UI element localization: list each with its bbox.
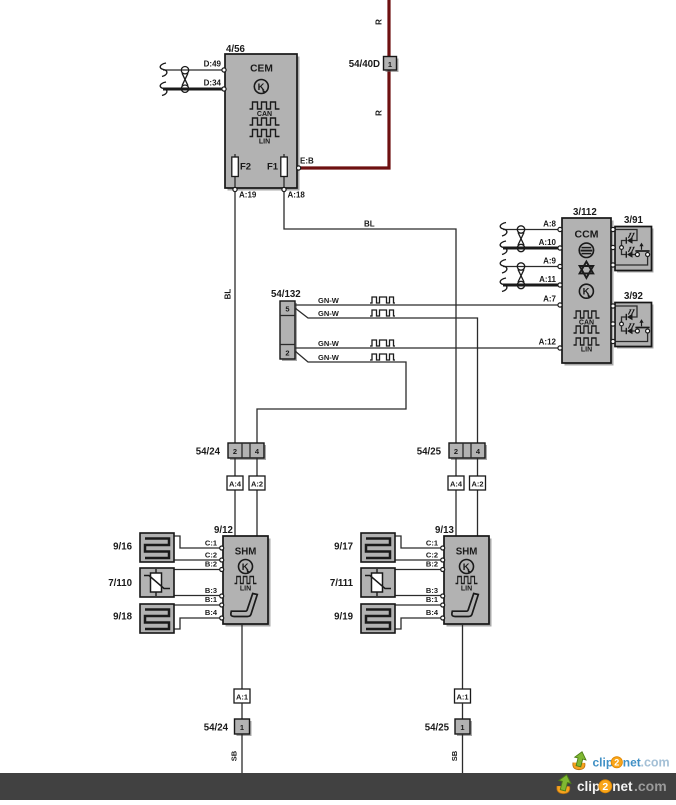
control module CEM 4/56 (228, 57, 300, 191)
svg-text:A:10: A:10 (539, 238, 557, 247)
svg-text:9/12: 9/12 (214, 525, 233, 536)
wire A:8 twisted pair upper (CCM) (503, 229, 558, 231)
svg-text:A:2: A:2 (251, 480, 263, 489)
svg-text:LIN: LIN (259, 139, 270, 146)
svg-text:2: 2 (602, 781, 608, 793)
svg-text:9/16: 9/16 (113, 542, 132, 553)
svg-text:A:19: A:19 (239, 191, 257, 200)
splice 54/25 pin 1 (457, 721, 472, 736)
connector 54/24 (230, 445, 266, 460)
temperature sensor 7/110 (140, 568, 174, 597)
icon CAN waveform CEM (250, 102, 280, 109)
svg-text:SB: SB (450, 750, 459, 761)
icon CAN waveform CCM (574, 311, 600, 318)
svg-text:A:4: A:4 (229, 480, 242, 489)
pin A:7 (558, 303, 562, 307)
twisted-pair symbol at CEM (181, 67, 188, 93)
icon LIN waveform CEM (250, 130, 280, 137)
svg-text:54/24: 54/24 (196, 447, 221, 458)
connector 54/25 (451, 445, 487, 460)
svg-text:9/19: 9/19 (334, 612, 353, 623)
svg-text:.com: .com (634, 778, 667, 794)
icon climate fan circle CCM (579, 243, 593, 257)
heater element 9/18 (140, 604, 174, 633)
connector 54/132 (282, 303, 297, 361)
seat heater module SHM 9/12 (220, 536, 271, 627)
fuse F2 (234, 154, 236, 188)
svg-text:LIN: LIN (581, 347, 592, 354)
svg-text:4/56: 4/56 (226, 44, 245, 55)
pin A:19 (233, 187, 237, 191)
LED and switch circuit 3/92 (615, 306, 650, 342)
svg-text:E:B: E:B (300, 157, 314, 166)
wire 54/25 pin2 to SHM A:4 (455, 458, 457, 476)
fuse F1 (283, 154, 285, 188)
svg-text:.com: .com (641, 756, 670, 770)
svg-text:A:1: A:1 (456, 693, 468, 702)
temperature sensor 7/111 (361, 568, 395, 597)
wire GN-W pin5 to CCM A:7 (295, 304, 558, 306)
wires 9/13 to heater elements and sensor (395, 536, 441, 629)
icon snowflake star CCM (580, 262, 594, 274)
heater element 9/16 (140, 533, 174, 562)
pin box A:2 left (249, 476, 265, 490)
twisted-pair symbol CCM lower (517, 263, 524, 289)
pin D:49 (222, 68, 226, 72)
svg-text:9/13: 9/13 (435, 525, 454, 536)
pin A:18 (282, 187, 286, 191)
svg-text:CAN: CAN (257, 111, 272, 118)
svg-text:2: 2 (285, 349, 289, 358)
svg-text:A:4: A:4 (450, 480, 463, 489)
svg-text:net: net (623, 756, 641, 770)
pin A:9 (558, 264, 562, 268)
svg-text:7/111: 7/111 (330, 578, 354, 589)
switch module 3/92 (617, 305, 654, 349)
connector 54/40D pin 1 (386, 59, 399, 73)
icon K circle CCM (579, 284, 593, 298)
wire A:10 twisted pair lower (CCM) (503, 247, 558, 250)
wire stubs and pins 3/91 (611, 229, 616, 231)
svg-text:R: R (375, 19, 384, 25)
svg-text:54/24: 54/24 (204, 723, 229, 734)
svg-text:9/18: 9/18 (113, 612, 132, 623)
twisted-pair symbol CCM upper (517, 226, 524, 252)
wire 54/24 pin4 to SHM A:2 (256, 458, 258, 476)
wire GN-W pin2 to CCM A:12 (295, 347, 558, 349)
seat heater module SHM 9/13 (441, 536, 492, 627)
svg-text:BL: BL (364, 220, 375, 229)
svg-text:54/25: 54/25 (425, 723, 450, 734)
svg-text:GN-W: GN-W (318, 309, 340, 318)
svg-text:net: net (612, 779, 633, 794)
svg-text:GN-W: GN-W (318, 339, 340, 348)
svg-text:A:7: A:7 (543, 295, 556, 304)
icon K circle CEM (254, 80, 268, 94)
svg-text:GN-W: GN-W (318, 296, 340, 305)
wire R battery feed (red) (300, 0, 389, 168)
svg-text:A:1: A:1 (236, 693, 248, 702)
svg-text:54/25: 54/25 (417, 447, 442, 458)
wire 54/25 pin4 to SHM A:2 (477, 458, 479, 476)
svg-text:D:34: D:34 (204, 79, 222, 88)
svg-text:1: 1 (240, 723, 244, 732)
svg-text:CCM: CCM (575, 229, 599, 241)
svg-text:A:8: A:8 (543, 220, 556, 229)
svg-text:7/110: 7/110 (108, 578, 132, 589)
pin A:8 (558, 227, 562, 231)
pin box A:4 right (448, 476, 464, 490)
svg-text:3/92: 3/92 (624, 291, 643, 302)
splice 54/24 pin 1 (237, 721, 252, 736)
footer bar (0, 773, 676, 800)
wire A:11 twisted pair lower (CCM) (503, 284, 558, 287)
svg-text:A:2: A:2 (471, 480, 483, 489)
pin A:11 (558, 283, 562, 287)
icon LIN waveform CCM (574, 338, 600, 345)
svg-text:clip: clip (593, 756, 614, 770)
svg-text:A:9: A:9 (543, 257, 556, 266)
heater element 9/19 (361, 604, 395, 633)
svg-text:F2: F2 (240, 162, 251, 173)
clip2net logo footer (557, 773, 667, 794)
svg-text:54/40D: 54/40D (349, 59, 380, 70)
switch module 3/91 (617, 229, 654, 273)
svg-text:5: 5 (285, 305, 289, 314)
svg-text:CEM: CEM (250, 64, 273, 75)
wire SHM 9/12 A:1 to ground splice 54/24 (241, 624, 243, 689)
svg-text:1: 1 (388, 60, 392, 69)
wire SB to ground right (462, 734, 464, 773)
svg-text:54/132: 54/132 (271, 289, 301, 300)
svg-text:3/112: 3/112 (573, 207, 597, 218)
svg-text:BL: BL (224, 289, 233, 300)
svg-text:GN-W: GN-W (318, 353, 340, 362)
svg-text:9/17: 9/17 (334, 542, 353, 553)
svg-text:1: 1 (460, 723, 464, 732)
heater element 9/17 (361, 533, 395, 562)
pin box A:4 left (227, 476, 243, 490)
LED and switch circuit 3/91 (615, 230, 650, 266)
wire stubs and pins 3/92 (611, 305, 616, 307)
svg-text:F1: F1 (267, 162, 279, 173)
wire 54/24 pin2 to SHM A:4 (234, 458, 236, 476)
svg-text:2: 2 (454, 447, 458, 456)
pin D:34 (222, 87, 226, 91)
svg-text:2: 2 (233, 447, 237, 456)
pin E:B (297, 166, 301, 170)
pin A:10 (558, 246, 562, 250)
SHM 9/12 pin labels C:1 C:2 B:2 B:3 B:1 B:4 (205, 539, 218, 618)
svg-text:A:11: A:11 (539, 275, 556, 284)
wires 9/12 to heater elements and sensor (174, 536, 220, 629)
wire D:49 twisted pair upper (CEM) (163, 69, 224, 71)
wire BL from A:19 down to 54/24 (234, 192, 236, 444)
wire GN-W pin2 to 54/24 pin4 (257, 351, 406, 443)
pin A:12 (558, 346, 562, 350)
wire SHM 9/13 A:1 to ground splice 54/25 (462, 624, 464, 689)
wire GN-W pin5 to 54/25 pin4 (295, 308, 478, 443)
wire D:34 twisted pair lower (CEM) (163, 88, 224, 91)
svg-text:SB: SB (230, 750, 239, 761)
wire BL from A:18 to 54/25 (284, 192, 456, 444)
svg-text:A:12: A:12 (539, 338, 557, 347)
svg-text:clip: clip (577, 779, 600, 794)
wire SB to ground left (241, 734, 243, 773)
clip2net logo upper (573, 750, 670, 769)
svg-text:R: R (375, 110, 384, 116)
control module CCM 3/112 (565, 221, 614, 366)
svg-text:A:18: A:18 (288, 191, 306, 200)
pin box A:2 right (470, 476, 486, 490)
wire A:9 twisted pair upper (CCM) (503, 266, 558, 268)
SHM 9/13 pin labels (426, 539, 439, 618)
svg-text:3/91: 3/91 (624, 215, 643, 226)
svg-text:D:49: D:49 (204, 60, 222, 69)
svg-text:2: 2 (614, 758, 619, 768)
